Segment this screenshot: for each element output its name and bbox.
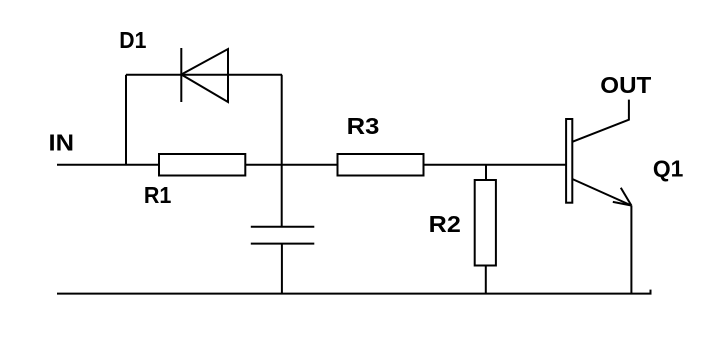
svg-text:R2: R2 [429,211,461,237]
svg-text:IN: IN [49,130,75,156]
svg-text:Q1: Q1 [653,156,684,182]
svg-text:D1: D1 [119,27,146,53]
svg-text:R1: R1 [144,182,172,208]
svg-text:OUT: OUT [600,72,651,98]
svg-text:R3: R3 [347,113,380,139]
